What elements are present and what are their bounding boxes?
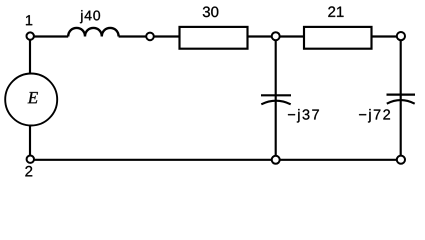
wire: resistor 30 to junction [248, 35, 272, 37]
wire bottom rail: junction to bottom right corner [280, 159, 397, 161]
wire top rail: terminal 1 to inductor [34, 35, 68, 37]
capacitor -j72 lead wire [400, 41, 402, 156]
wire: terminal 1 down to source [29, 40, 31, 73]
capacitor -j37 straight plate [261, 94, 291, 96]
terminal node 2 [27, 156, 34, 163]
source label E [28, 92, 38, 103]
corner node bottom right [397, 156, 405, 164]
terminal node 1 [27, 32, 34, 39]
wire bottom rail: terminal 2 to bottom junction [34, 159, 272, 161]
junction node top middle [272, 32, 280, 40]
capacitor value label -j37 [288, 109, 319, 123]
wire: inductor to node [119, 35, 147, 37]
junction node bottom middle [272, 156, 280, 164]
node 1 label [26, 15, 32, 25]
capacitor -j37 curved plate [261, 101, 290, 105]
resistor 30 [180, 27, 248, 49]
wire: junction to resistor 21 [280, 35, 304, 37]
source E circle [5, 74, 57, 126]
capacitor value label -j72 [359, 109, 390, 123]
corner node top right [397, 32, 405, 40]
resistor 21 [304, 27, 372, 49]
resistor value label 21 [328, 6, 343, 16]
node 2 label [25, 166, 32, 176]
wire: source down to terminal 2 [29, 126, 31, 156]
wire: node to resistor 30 [154, 35, 180, 37]
inductor value label j40 [80, 10, 100, 23]
resistor value label 30 [203, 7, 219, 18]
capacitor -j37 lead wire [275, 41, 277, 156]
capacitor -j72 straight plate [387, 93, 416, 95]
inductor j40 [68, 28, 118, 37]
wire: resistor 21 to top right corner [372, 35, 397, 37]
capacitor -j72 curved plate [387, 100, 415, 104]
node circle after inductor [146, 33, 154, 41]
